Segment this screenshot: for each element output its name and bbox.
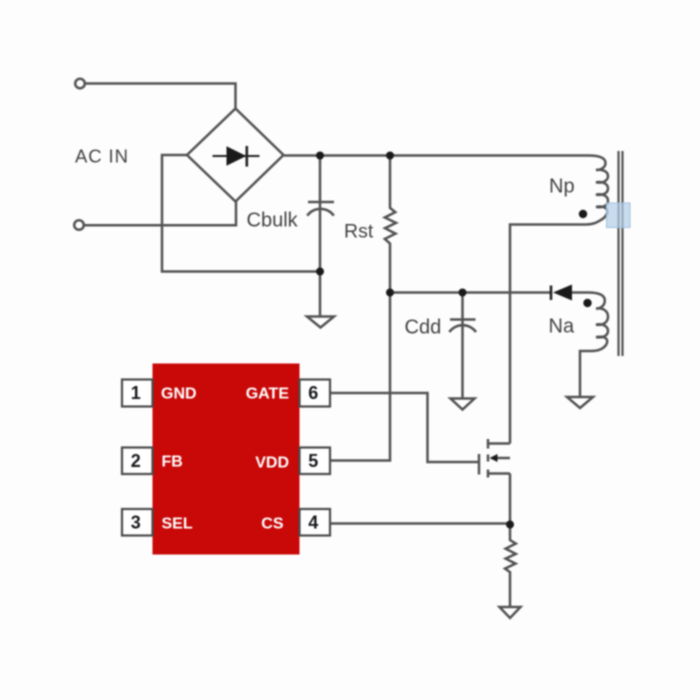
node DC+ / Rst: [386, 152, 394, 160]
wire DC+ rail to transformer Np: [284, 156, 606, 171]
capacitor Cdd lead top: [461, 293, 464, 399]
ground for Na: [567, 397, 593, 408]
ground for Cdd: [451, 399, 475, 410]
transistor Q1 source stub: [487, 470, 490, 478]
svg-text:6: 6: [308, 383, 318, 403]
svg-text:GATE: GATE: [246, 386, 290, 403]
node DC+ / Cbulk: [316, 152, 324, 160]
capacitor Cdd plates: [450, 318, 476, 321]
bridge rectifier BR1 diamond: [187, 109, 284, 202]
svg-text:1: 1: [131, 383, 141, 403]
svg-text:4: 4: [308, 513, 318, 533]
winding Na: [596, 308, 608, 337]
svg-text:Np: Np: [549, 176, 575, 198]
svg-text:FB: FB: [162, 454, 183, 471]
pin 3 box: [122, 509, 153, 536]
node VDD / Rst bottom: [386, 289, 394, 297]
resistor Rst: [385, 156, 396, 293]
svg-text:GND: GND: [161, 386, 197, 403]
ground for Rsense: [500, 607, 521, 618]
pin 2 box: [122, 448, 153, 475]
wire Na bottom to ground: [580, 337, 607, 397]
pin 6 box: [300, 380, 331, 407]
capacitor Cbulk plates: [308, 201, 334, 204]
pin 1 box: [122, 380, 153, 407]
svg-text:VDD: VDD: [255, 455, 289, 472]
svg-text:Cdd: Cdd: [405, 317, 442, 339]
phase dot Np: [579, 210, 587, 218]
wire top terminal to bridge top: [85, 84, 236, 109]
phase dot Na: [583, 299, 591, 307]
capacitor Cbulk lead top: [319, 156, 322, 272]
wire diode to Na winding: [572, 293, 605, 309]
pin 5 box: [300, 448, 331, 475]
svg-text:Na: Na: [549, 316, 575, 338]
wire Np bottom to MOSFET drain: [510, 207, 607, 444]
blue highlight square on core: [607, 203, 631, 228]
svg-text:5: 5: [308, 451, 318, 471]
svg-text:SEL: SEL: [162, 516, 193, 533]
terminal top AC: [75, 79, 85, 89]
diode inside bridge: [213, 146, 260, 167]
svg-text:Cbulk: Cbulk: [247, 210, 299, 232]
pin 4 box: [300, 509, 331, 536]
ground for Cbulk: [319, 272, 322, 317]
svg-text:CS: CS: [261, 516, 284, 533]
transistor Q1 MOSFET drain stub: [489, 442, 510, 445]
wire MOSFET source to CS node: [509, 474, 512, 525]
terminal bottom AC: [74, 220, 84, 230]
junction node dots: [316, 152, 592, 529]
svg-text:3: 3: [131, 513, 141, 533]
transistor Q1 body stub: [487, 455, 490, 462]
wire VDD rail to diode: [390, 291, 550, 294]
IC pin labels: [161, 386, 289, 533]
node Cbulk bottom: [316, 268, 324, 276]
transformer core lines: [617, 151, 619, 356]
wire GATE pin6 to MOSFET gate: [330, 393, 478, 462]
transistor Q1 gate bar: [478, 454, 481, 475]
svg-text:2: 2: [131, 451, 141, 471]
svg-text:AC IN: AC IN: [75, 145, 129, 166]
wire CS pin4 to sense node: [330, 522, 510, 525]
transistor Q1 body arrow: [490, 454, 498, 462]
diode D1 aux: [551, 285, 572, 301]
IC U1 body: [153, 364, 300, 555]
wire VDD pin5 to Rst node: [330, 293, 390, 461]
node CS / source / Rsense: [506, 521, 514, 529]
pin numbers: [131, 383, 318, 533]
winding Np: [596, 170, 608, 207]
node VDD / Cdd: [459, 289, 467, 297]
svg-text:Rst: Rst: [344, 221, 374, 243]
wire bottom terminal to bridge bottom: [84, 202, 236, 226]
wire bridge left vertex to bottom rail: [162, 155, 320, 272]
resistor Rsense: [505, 525, 516, 608]
